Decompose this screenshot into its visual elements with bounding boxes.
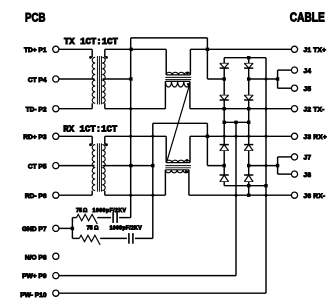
svg-text:J1 TX+: J1 TX+ [304, 47, 327, 54]
svg-text:J8: J8 [304, 172, 312, 179]
svg-text:GND P7: GND P7 [22, 226, 47, 233]
svg-text:J2 TX-: J2 TX- [304, 106, 325, 113]
svg-text:TX 1CT:1CT: TX 1CT:1CT [64, 37, 119, 47]
svg-text:75 Ω: 75 Ω [87, 225, 99, 231]
svg-text:PW- P10: PW- P10 [20, 292, 47, 299]
svg-text:TD- P2: TD- P2 [26, 106, 47, 113]
svg-text:RX 1CT:1CT: RX 1CT:1CT [63, 125, 118, 135]
svg-text:J5: J5 [304, 86, 312, 93]
svg-text:N/O P8: N/O P8 [25, 254, 47, 261]
svg-text:J6 RX-: J6 RX- [304, 193, 326, 200]
svg-text:TD+ P1: TD+ P1 [24, 47, 47, 54]
svg-text:CT P4: CT P4 [28, 77, 47, 84]
svg-text:1000pF/2KV: 1000pF/2KV [93, 208, 127, 214]
svg-text:CT P5: CT P5 [28, 164, 47, 171]
svg-text:J3 RX+: J3 RX+ [304, 134, 327, 141]
svg-text:1000pF/2KV: 1000pF/2KV [110, 225, 143, 231]
svg-text:J4: J4 [304, 68, 312, 75]
svg-text:J7: J7 [304, 155, 312, 162]
svg-text:PW+ P9: PW+ P9 [22, 273, 47, 280]
svg-text:75: 75 [76, 208, 82, 214]
svg-text:CABLE: CABLE [290, 10, 325, 25]
svg-text:PCB: PCB [25, 11, 46, 25]
svg-text:RD+ P3: RD+ P3 [23, 134, 47, 141]
svg-text:RD- P6: RD- P6 [25, 193, 47, 200]
svg-text:Ω: Ω [83, 208, 88, 214]
